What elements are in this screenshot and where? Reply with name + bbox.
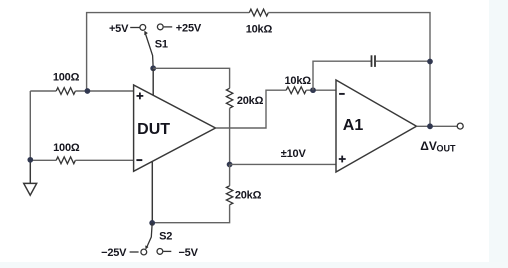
node feedback output column [427, 59, 433, 65]
capacitor C1 plate left [371, 55, 373, 67]
svg-text:100Ω: 100Ω [53, 142, 80, 154]
resistor R6 20k lower [226, 186, 232, 205]
svg-text:A1: A1 [343, 117, 364, 134]
wire DUT bottom supply [151, 162, 153, 223]
wire ground stem [29, 160, 31, 183]
wire divider to A1 non-inverting input [230, 163, 336, 165]
node left junction [85, 88, 91, 94]
switch S1 arm [145, 33, 153, 68]
wire supply to DUT top [152, 68, 154, 95]
pin + DUT [137, 93, 144, 100]
wire supply node to divider top [153, 68, 229, 88]
svg-text:ΔV: ΔV [420, 139, 437, 153]
wire divider mid to 20k lower [229, 165, 231, 186]
pin - A1 [339, 93, 345, 95]
svg-text:10kΩ: 10kΩ [285, 75, 312, 87]
wire stub +5V [130, 27, 139, 29]
switch S2 pole 2 [157, 249, 163, 255]
wire 20k lower to S2 node [152, 205, 229, 223]
switch S1 pole 2 [157, 24, 163, 30]
switch S1 arrowhead [144, 31, 148, 36]
op-amp A1 [336, 80, 417, 172]
wire divider mid vertical [229, 108, 231, 164]
switch S1 pole 1 [140, 25, 146, 31]
switch S2 arm [147, 223, 152, 247]
svg-text:+25V: +25V [176, 23, 202, 35]
node A1 inverting input [310, 87, 316, 93]
switch S2 arrowhead [145, 245, 148, 249]
pin + A1 [339, 156, 346, 163]
wire 10k to A1 inverting input [306, 89, 336, 91]
svg-text:20kΩ: 20kΩ [235, 190, 262, 202]
svg-text:20kΩ: 20kΩ [237, 95, 264, 107]
wire top rail left half [87, 13, 250, 91]
node S2 junction [149, 220, 155, 226]
resistor R2 100 ohm lower [56, 157, 75, 164]
svg-text:10kΩ: 10kΩ [246, 23, 273, 35]
wire capacitor to output column [376, 60, 430, 62]
node S1 to DUT supply [150, 65, 156, 71]
svg-text:100Ω: 100Ω [53, 71, 80, 83]
svg-text:−25V: −25V [101, 247, 127, 259]
capacitor C1 plate right [374, 55, 376, 67]
ground [24, 183, 37, 195]
svg-text:S1: S1 [155, 38, 168, 50]
wire -input to DUT [75, 159, 133, 161]
node ground junction [27, 157, 33, 163]
wire -input from left [30, 159, 56, 161]
switch S2 pole 1 [141, 249, 147, 255]
resistor R4 10k input [286, 87, 306, 94]
wire stub +25V [164, 26, 173, 28]
svg-text:S2: S2 [159, 230, 172, 242]
terminal output circle [457, 123, 463, 129]
wire left vertical [29, 91, 31, 160]
wire +input from left [30, 90, 56, 92]
svg-text:±10V: ±10V [281, 148, 307, 160]
resistor R1 100 ohm upper [56, 88, 75, 95]
wire stub -5V [163, 250, 171, 252]
wire +input to DUT [75, 90, 133, 92]
op-amp DUT [134, 85, 216, 171]
svg-text:−5V: −5V [178, 247, 198, 259]
resistor R5 20k upper [226, 88, 232, 108]
svg-text:+5V: +5V [109, 23, 129, 35]
wire feedback riser [313, 61, 371, 90]
resistor R3 10k feedback top [249, 9, 268, 16]
node divider mid [227, 162, 233, 168]
wire top rail right half [268, 13, 430, 127]
node output junction [427, 123, 433, 129]
svg-text:DUT: DUT [137, 121, 170, 138]
wire A1 output [417, 125, 458, 127]
pin - DUT [136, 159, 142, 161]
svg-text:OUT: OUT [437, 144, 457, 154]
wire stub -25V [130, 251, 139, 253]
wire DUT output [216, 90, 287, 128]
